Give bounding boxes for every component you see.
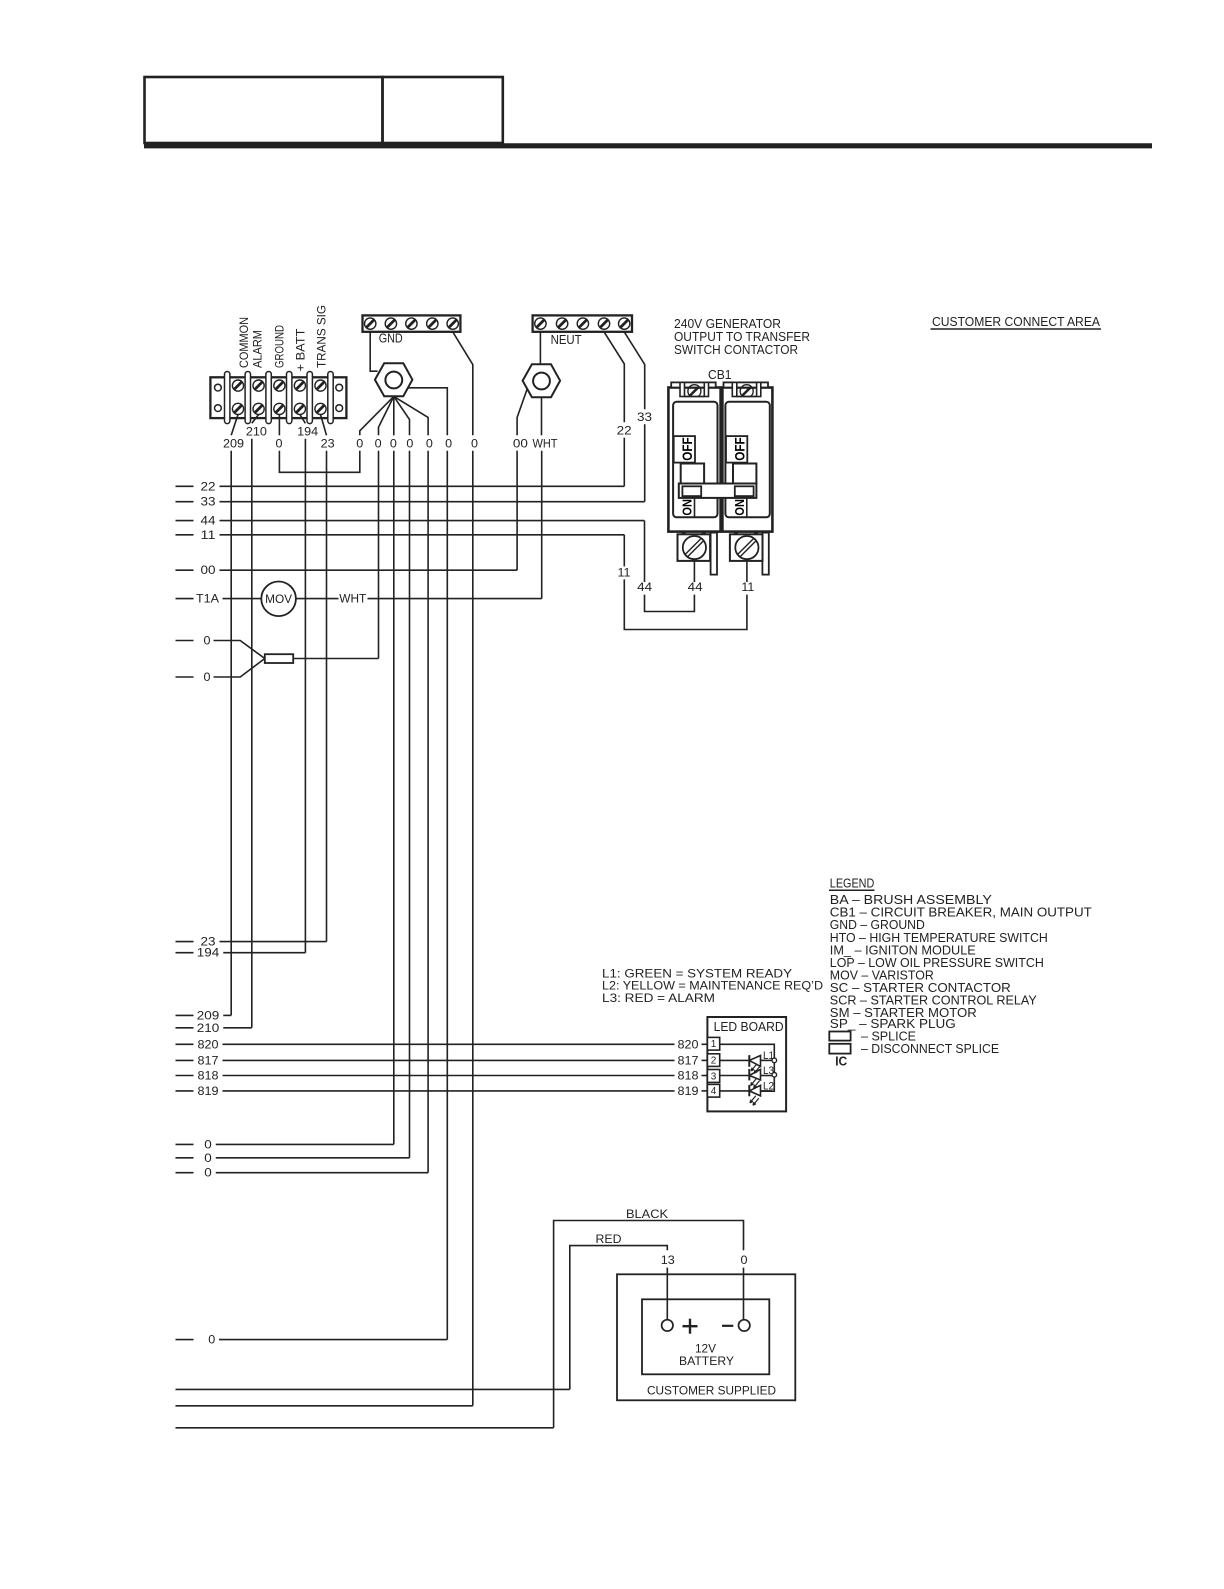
svg-text:820: 820 (678, 1039, 699, 1051)
LED L3 (720, 1075, 750, 1077)
wire net WHT: MOV to neutral stud (296, 598, 339, 600)
svg-text:818: 818 (678, 1071, 699, 1083)
ground fan wire 5 (394, 396, 428, 435)
terminal strip GND body (363, 315, 461, 331)
wire net 00: neutral stud to left margin (517, 389, 527, 436)
legend disconnect splice symbol (829, 1044, 850, 1054)
battery plus sign (683, 1325, 698, 1327)
svg-text:NEUT: NEUT (551, 333, 582, 347)
svg-text:IC: IC (835, 1054, 847, 1068)
svg-text:COMMON: COMMON (237, 317, 251, 368)
svg-text:RED: RED (596, 1234, 622, 1246)
wire row 22 y=486.3 (176, 485, 194, 487)
CB1 pole body left (668, 388, 720, 532)
wire row 11 y=534.8 (176, 534, 194, 536)
svg-text:819: 819 (678, 1086, 699, 1098)
svg-text:0: 0 (204, 1153, 212, 1165)
svg-text:44: 44 (201, 516, 217, 528)
svg-text:0: 0 (741, 1255, 748, 1267)
ground fan wire 3 (393, 396, 395, 435)
svg-text:L2: L2 (763, 1080, 774, 1092)
battery outer box (customer supplied) (617, 1274, 795, 1400)
wire net 11: margin to CB1 right lug (623, 535, 625, 567)
svg-text:3: 3 (711, 1071, 717, 1082)
svg-text:33: 33 (201, 497, 216, 509)
svg-text:OFF: OFF (732, 437, 747, 461)
battery 12V body (642, 1299, 769, 1374)
svg-text:819: 819 (198, 1086, 219, 1098)
wire net 818: left margin to LED board (176, 1075, 194, 1077)
wire net 44: margin to CB1 left lug (644, 521, 646, 582)
wire 209: TB1 col1 to left margin (231, 415, 238, 436)
wire row unlabeled y=1405.8 (176, 1405, 473, 1407)
battery positive terminal (662, 1320, 673, 1331)
svg-text:GROUND: GROUND (273, 325, 287, 368)
disconnect splice symbol (265, 654, 293, 663)
CB1 clamp prongs (732, 382, 737, 396)
svg-text:4: 4 (711, 1086, 717, 1097)
svg-text:WHT: WHT (533, 439, 558, 451)
svg-text:ON: ON (732, 499, 747, 516)
svg-text:TRANS SIG: TRANS SIG (314, 305, 328, 368)
title block rule (144, 143, 1152, 148)
svg-text:817: 817 (198, 1055, 219, 1067)
wire row 33 y=501.7 (176, 501, 194, 503)
svg-text:CUSTOMER SUPPLIED: CUSTOMER SUPPLIED (647, 1383, 776, 1397)
CB1 OFF window (726, 436, 747, 463)
svg-text:817: 817 (678, 1055, 699, 1067)
svg-text:GND: GND (379, 332, 403, 346)
wire 210: TB1 col2 to left margin (252, 415, 259, 424)
ground fan wire 2 (to splice) (379, 396, 394, 435)
svg-text:T1A: T1A (196, 594, 219, 606)
CB1 ON cell divider right (746, 498, 748, 517)
svg-text:0: 0 (204, 672, 211, 684)
LED board pin 1 (707, 1037, 719, 1050)
svg-text:CB1: CB1 (708, 368, 732, 382)
svg-text:– DISCONNECT SPLICE: – DISCONNECT SPLICE (861, 1042, 999, 1056)
svg-text:194: 194 (297, 427, 319, 439)
wire row 44 y=520.6 (176, 520, 194, 522)
svg-text:+ BATT: + BATT (294, 328, 308, 372)
svg-text:CUSTOMER CONNECT AREA: CUSTOMER CONNECT AREA (932, 315, 1101, 329)
wire net 817: left margin to LED board (176, 1059, 194, 1061)
neutral stud lug NEUT (523, 364, 561, 397)
CB1 OFF window (674, 436, 695, 463)
svg-text:240V GENERATOR: 240V GENERATOR (674, 317, 781, 331)
svg-text:0: 0 (426, 439, 433, 451)
ground fan wire 4 (394, 396, 410, 435)
svg-text:L3: L3 (763, 1065, 774, 1077)
ground fan wire 7 (from GND screw 5) (453, 332, 473, 436)
wire 0 lower to disconnect splice (176, 676, 194, 678)
LED emission arrows (751, 1064, 757, 1071)
wire splice output to ground fan (293, 658, 378, 660)
svg-text:BATTERY: BATTERY (679, 1354, 734, 1368)
CB1 pole inner body (725, 402, 769, 518)
wire row unlabeled y=1427.8 (176, 1427, 554, 1429)
wire row 209 y=1015.4 (176, 1014, 194, 1016)
wire row 23 y=941.6 (176, 941, 194, 943)
svg-text:194: 194 (197, 948, 220, 960)
wire row 0 y=1144.4 (176, 1143, 194, 1145)
LED board pin 4 (707, 1084, 719, 1097)
svg-text:L3: RED = ALARM: L3: RED = ALARM (602, 991, 715, 1005)
svg-text:44: 44 (688, 582, 704, 594)
svg-text:BLACK: BLACK (626, 1209, 668, 1221)
wire net T1A: left margin to MOV (176, 598, 194, 600)
LED bus junction circles (772, 1058, 777, 1063)
svg-text:209: 209 (197, 1010, 220, 1022)
CB1 bottom lug left (678, 534, 711, 561)
CB1 bottom tab right (762, 533, 768, 575)
svg-text:1: 1 (711, 1039, 717, 1050)
svg-text:L1: L1 (763, 1050, 774, 1062)
svg-text:22: 22 (201, 481, 216, 493)
svg-text:209: 209 (223, 439, 244, 451)
svg-text:00: 00 (201, 565, 216, 577)
svg-text:0: 0 (204, 1139, 212, 1151)
CB1 pole body right (722, 388, 772, 532)
terminal block TB1 body (210, 377, 346, 418)
wire row 0 y=1172.7 (176, 1172, 194, 1174)
wire 0: TB1 GROUND col to ground stud fan (278, 415, 280, 436)
svg-text:ON: ON (680, 499, 695, 516)
svg-text:11: 11 (741, 582, 754, 594)
wire GND strip to ground stud (370, 332, 377, 371)
svg-text:0: 0 (276, 439, 283, 451)
LED board internal bus (720, 1044, 775, 1091)
title block box 1 (145, 77, 383, 143)
LED board outline (707, 1017, 786, 1111)
svg-text:11: 11 (618, 567, 631, 579)
CB1 clamp prongs (680, 382, 685, 396)
CB1 handle (681, 464, 704, 484)
svg-text:0: 0 (406, 439, 413, 451)
NEUT strip screws (535, 318, 546, 329)
varistor MOV (261, 582, 296, 617)
svg-text:33: 33 (637, 412, 652, 424)
wire row 00 y=570.2 (176, 569, 194, 571)
GND strip screws (365, 318, 376, 329)
svg-text:ALARM: ALARM (250, 330, 264, 368)
svg-text:11: 11 (201, 530, 216, 542)
wire net 22: NEUT screw 4 to left margin (604, 332, 624, 423)
svg-text:LEGEND: LEGEND (830, 876, 875, 891)
CB1 bottom lug right (730, 534, 763, 561)
wire NEUT strip to neutral stud (539, 332, 541, 364)
svg-text:0: 0 (375, 439, 382, 451)
legend splice symbol (829, 1032, 850, 1041)
svg-text:WHT: WHT (339, 594, 366, 606)
CB1 pole top clamp (724, 382, 769, 387)
CB1 top screw (740, 385, 753, 398)
wire 0 upper to disconnect splice (176, 640, 194, 642)
ground stud lug GND (375, 363, 413, 396)
svg-text:SWITCH CONTACTOR: SWITCH CONTACTOR (674, 343, 798, 357)
wire row 210 y=1027.8 (176, 1027, 194, 1029)
CB1 ON cell divider left (694, 498, 696, 517)
svg-text:13: 13 (661, 1255, 675, 1267)
CB1 bottom tab left (711, 533, 717, 575)
LED L2 (720, 1090, 750, 1092)
svg-text:0: 0 (356, 439, 363, 451)
wire row 0 y=1339.6 (176, 1339, 194, 1341)
LED board pin 3 (707, 1070, 719, 1083)
ground fan wire 6 (stud side) (408, 388, 447, 436)
wire 23: TB1 col5 to left margin (321, 415, 327, 436)
wire row unlabeled y=1389.4 (176, 1388, 570, 1390)
LED board pin 2 (707, 1054, 719, 1067)
battery minus sign (722, 1325, 733, 1327)
svg-text:23: 23 (321, 439, 335, 451)
CB1 handle tie bar (679, 484, 757, 498)
ground fan wire 1 (to TB1 GROUND) (360, 396, 394, 435)
TB1 mounting holes (215, 384, 222, 391)
CB1 pole inner body (673, 402, 717, 518)
CB1 top screw (688, 385, 701, 398)
svg-text:0: 0 (204, 636, 211, 648)
svg-text:0: 0 (204, 1168, 212, 1180)
TB1 terminal screws (232, 380, 243, 391)
CB1 bottom contact ticks (682, 531, 686, 534)
wire row 194 y=952.7 (176, 952, 194, 954)
wire net 819: left margin to LED board (176, 1090, 194, 1092)
wire net 820: left margin to LED board (176, 1043, 194, 1045)
TB1 barrier strips (225, 372, 230, 424)
LED L1 (720, 1059, 750, 1061)
svg-text:OUTPUT TO TRANSFER: OUTPUT TO TRANSFER (674, 330, 810, 344)
wire row 0 y=1157.8 (176, 1157, 194, 1159)
CB1 handle (733, 464, 756, 484)
svg-text:MOV: MOV (265, 594, 292, 606)
svg-text:0: 0 (445, 439, 452, 451)
svg-text:0: 0 (390, 439, 397, 451)
svg-text:22: 22 (617, 425, 632, 437)
wire 194: TB1 col4 to left margin (300, 415, 306, 424)
svg-text:00: 00 (513, 439, 528, 451)
svg-text:0: 0 (208, 1335, 215, 1347)
svg-text:818: 818 (198, 1071, 219, 1083)
svg-text:0: 0 (471, 439, 478, 451)
svg-text:2: 2 (711, 1055, 717, 1066)
svg-text:LED BOARD: LED BOARD (714, 1020, 784, 1034)
wire net 33: NEUT screw 5 to left margin (624, 332, 645, 410)
svg-text:210: 210 (197, 1023, 220, 1035)
battery negative terminal (739, 1320, 750, 1331)
terminal strip NEUT body (533, 315, 632, 331)
svg-text:OFF: OFF (680, 437, 695, 461)
svg-text:44: 44 (637, 582, 653, 594)
svg-text:210: 210 (246, 427, 267, 439)
title block box 2 (383, 77, 503, 143)
svg-text:820: 820 (198, 1039, 219, 1051)
CB1 pole top clamp (671, 382, 716, 387)
svg-text:23: 23 (201, 937, 216, 949)
